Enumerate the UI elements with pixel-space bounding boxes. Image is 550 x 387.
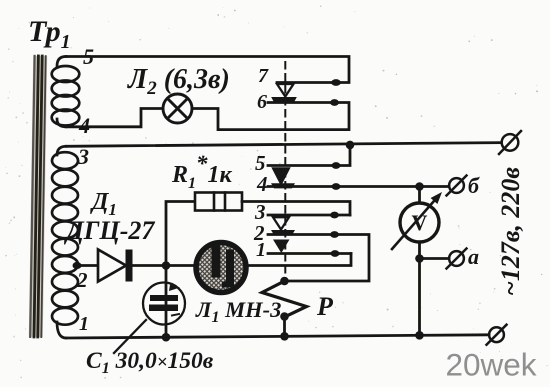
pin 5 label (switch) xyxy=(255,151,266,175)
svg-text:~127в, 220в: ~127в, 220в xyxy=(496,167,525,296)
svg-text:2: 2 xyxy=(76,268,88,292)
wire to terminal b xyxy=(420,257,450,260)
label C1 30,0x150v xyxy=(86,348,214,377)
pin 2 label (switch) xyxy=(253,221,265,245)
label R1* 1k xyxy=(171,151,233,192)
switch S1.2 wiper (filled triangle at 4) xyxy=(273,168,290,185)
svg-text:б: б xyxy=(468,173,480,198)
plug dot wire 2 xyxy=(330,231,339,238)
voltmeter V xyxy=(400,203,439,242)
switch S1.2 contact 3 (open triangle) xyxy=(273,217,289,229)
svg-text:ДГЦ-27: ДГЦ-27 xyxy=(64,216,155,245)
label a xyxy=(468,244,479,269)
plug dot wire 4 xyxy=(332,183,341,190)
leader line C1 label xyxy=(114,320,146,353)
pin 3 xyxy=(77,144,89,169)
junction rheostat top xyxy=(280,277,289,286)
terminal top right xyxy=(499,131,521,154)
junction dot C1 at bus xyxy=(162,333,171,342)
lamp L2 (6.3V) xyxy=(163,94,192,123)
resistor R1 xyxy=(195,193,242,211)
svg-text:4: 4 xyxy=(256,172,268,196)
pin 3 label (switch) xyxy=(254,200,266,224)
label b xyxy=(468,173,480,198)
plug dot on wire 7 xyxy=(331,79,341,86)
voltmeter needle xyxy=(392,192,442,249)
junction voltmeter at bus xyxy=(415,331,424,340)
plug dot on wire 6 xyxy=(330,99,339,106)
svg-text:R1*1к: R1*1к xyxy=(171,151,233,192)
winding 3-2-1 (primary) xyxy=(52,146,78,338)
wire: neon lamp to wire 1 loop xyxy=(249,254,351,266)
wire: diode cathode to node A xyxy=(133,264,194,267)
wire: node A up to resistor R1 xyxy=(166,202,195,266)
svg-text:3: 3 xyxy=(77,144,89,169)
svg-text:С1 30,0×150в: С1 30,0×150в xyxy=(86,348,214,377)
label L1 MN-3 xyxy=(195,297,281,326)
contact pad 2 xyxy=(271,230,295,235)
pin 5 xyxy=(83,44,94,69)
winding 5-4 (heater winding) xyxy=(52,57,80,127)
diode D1 DGC-27 xyxy=(98,250,133,282)
label L2 (6,3v) xyxy=(127,64,230,99)
pin 4 xyxy=(78,113,90,138)
pin 7 xyxy=(258,65,269,87)
plug dot wire 5 xyxy=(332,162,341,169)
pin 6 xyxy=(257,91,267,113)
wire: tap 2 to diode anode xyxy=(75,264,98,267)
wire: node A down to capacitor C1 and bus xyxy=(165,266,168,338)
wire: mains bus top edge to terminal xyxy=(66,143,502,147)
svg-text:1: 1 xyxy=(79,313,89,335)
wire voltmeter bottom to bus xyxy=(418,242,421,335)
rheostat P zigzag xyxy=(262,281,307,317)
plug dot wire 1 xyxy=(331,250,340,257)
svg-text:1: 1 xyxy=(256,239,266,261)
transformer label Tr1 xyxy=(28,15,71,53)
label D1 xyxy=(90,189,117,219)
junction node a xyxy=(415,254,424,263)
terminal b xyxy=(447,176,467,196)
wire: top edge of heater loop to contact 7 xyxy=(66,57,349,83)
svg-text:6: 6 xyxy=(257,91,267,113)
wire 4 to terminal b xyxy=(268,185,449,188)
switch mechanical link (dashed) xyxy=(284,62,286,279)
label ~127v 220v xyxy=(496,167,525,296)
junction at top bus x350 xyxy=(346,141,355,150)
junction rheostat bottom xyxy=(280,312,289,321)
svg-text:20wek: 20wek xyxy=(446,347,537,383)
pin 2 xyxy=(76,268,88,292)
svg-text:7: 7 xyxy=(258,65,269,87)
terminal a xyxy=(447,249,467,269)
wire voltmeter top xyxy=(418,187,421,204)
pin 1 label (switch) xyxy=(256,239,266,261)
wire 3 xyxy=(268,214,350,217)
switch S1.1 wiper contact 7 (open triangle) xyxy=(277,84,294,97)
svg-text:а: а xyxy=(468,244,479,269)
label P xyxy=(316,292,334,321)
junction voltmeter top xyxy=(415,182,424,191)
svg-text:Р: Р xyxy=(316,292,334,321)
svg-text:Тр1: Тр1 xyxy=(28,15,71,53)
terminal bottom right xyxy=(487,325,507,345)
bottom bus wire xyxy=(66,335,489,338)
wire: heater loop bottom through lamp to contact 6 xyxy=(66,103,349,130)
transformer core Tr1 xyxy=(29,56,47,337)
switch S1.1 contact pad 6 xyxy=(272,98,296,104)
svg-text:Л2 (6,3в): Л2 (6,3в) xyxy=(127,64,230,99)
wire rheostat to bus xyxy=(283,317,286,337)
pin 4 label (switch) xyxy=(256,172,268,196)
svg-text:Д1: Д1 xyxy=(90,189,117,219)
neon lamp L1 MN-3 xyxy=(196,243,246,293)
contact pad 4 xyxy=(271,183,295,188)
pin 1 xyxy=(79,313,89,335)
tap 2 junction tick xyxy=(73,262,82,269)
label DGC-27 xyxy=(64,216,155,245)
junction rheostat at bus xyxy=(280,332,289,341)
switch S1.2 contact 1 (filled triangle) xyxy=(273,240,290,254)
svg-text:Л1 МН-3: Л1 МН-3 xyxy=(195,297,281,326)
wire: resistor R1 to contact 3 row xyxy=(242,202,350,216)
capacitor C1 xyxy=(143,283,185,325)
plug dot wire 3 xyxy=(330,212,339,219)
wire 1 xyxy=(268,252,351,255)
wire 5 xyxy=(268,145,350,166)
node A junction dot xyxy=(162,261,171,270)
wire 2 xyxy=(268,235,369,282)
watermark 20wek xyxy=(446,347,537,383)
